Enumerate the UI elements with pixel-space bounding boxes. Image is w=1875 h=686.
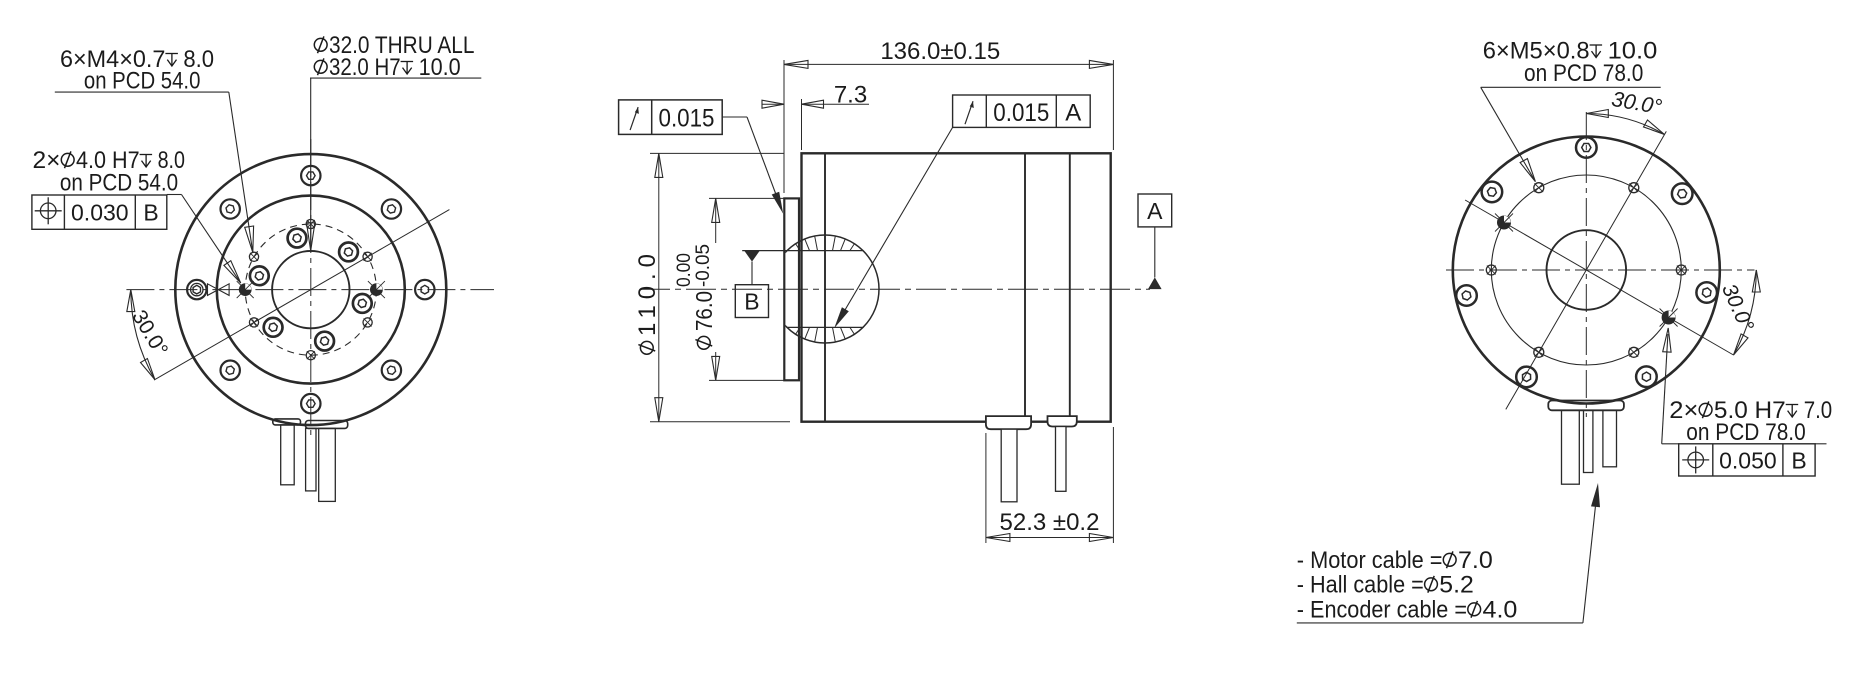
dim 110 ext top bbox=[650, 152, 784, 154]
left view 30deg diagonal centerline bbox=[154, 210, 449, 381]
svg-text:- Hall cable =: - Hall cable = bbox=[1297, 572, 1424, 599]
right view center bore circle bbox=[1547, 230, 1627, 310]
frame2 leader arrow bbox=[834, 307, 849, 328]
note dia32 leader arrow bbox=[307, 223, 315, 251]
body step line right bbox=[1069, 153, 1071, 421]
svg-text:32.0 H7: 32.0 H7 bbox=[329, 54, 401, 81]
svg-text:- Motor cable =: - Motor cable = bbox=[1297, 547, 1443, 574]
right frame leader bbox=[1662, 334, 1668, 444]
svg-text:7.0: 7.0 bbox=[1804, 397, 1833, 424]
hex socket screw at 90 deg (right view) bbox=[1576, 137, 1597, 158]
frame2 leader bbox=[838, 127, 953, 322]
dim 52.3 arrow left bbox=[986, 534, 1010, 542]
dim 110 line bbox=[658, 153, 660, 421]
note 6xM4 leader arrow bbox=[245, 226, 254, 252]
svg-text:B: B bbox=[1791, 447, 1806, 473]
dim 110 arrow bottom bbox=[655, 398, 663, 422]
note 6xM5 underline+leader bbox=[1481, 86, 1661, 88]
dim 52.3 ext left bbox=[985, 433, 987, 543]
motor cable (left view) bbox=[319, 428, 336, 501]
hex socket screw at 299.4 deg (right view) bbox=[1636, 366, 1657, 387]
dim 7.3 right arrow bbox=[802, 103, 870, 105]
dim 136 arrow right bbox=[1089, 60, 1113, 68]
outer mounting screw at 0 deg (left view) bbox=[415, 280, 434, 299]
right arc arrow bottom bbox=[1734, 334, 1749, 355]
datum B box bbox=[735, 285, 768, 318]
left view bolt circle PCD 54 (dashed) bbox=[245, 224, 376, 355]
bowtie datum mark on left centerline bbox=[208, 284, 230, 296]
encoder cable (right view) bbox=[1584, 410, 1593, 472]
30.0deg label right (right view) bbox=[1717, 280, 1758, 334]
dim dia76 text bbox=[674, 244, 717, 349]
top arc arrow right bbox=[1644, 120, 1665, 135]
svg-text:76.0: 76.0 bbox=[691, 291, 717, 331]
dim 7.3 ext right bbox=[801, 99, 803, 150]
30deg angle dimension arc (left view) bbox=[131, 290, 155, 380]
M5 tapped hole at 120 deg on PCD78 bbox=[1534, 183, 1544, 193]
hex socket screw at 38.5 deg (right view) bbox=[1672, 183, 1693, 204]
socket head screw at 105 deg (left view) bbox=[288, 229, 307, 248]
svg-text:on PCD 54.0: on PCD 54.0 bbox=[60, 170, 178, 197]
hall cable (right view) bbox=[1603, 410, 1617, 467]
left frame leader arrow bbox=[224, 261, 241, 283]
M5 tapped hole at 0 deg on PCD78 bbox=[1676, 265, 1686, 275]
M4 tapped hole at 330 deg on PCD54 bbox=[363, 318, 372, 327]
bore bottom wall line bbox=[787, 326, 864, 328]
note dia32 line1 bbox=[314, 36, 327, 53]
M5 tapped hole at 300 deg on PCD78 bbox=[1629, 347, 1639, 357]
hex socket screw at 140.4 deg (right view) bbox=[1482, 182, 1503, 203]
right view outer circle bbox=[1453, 137, 1720, 404]
left view outer flange circle bbox=[175, 154, 446, 425]
datum B leader bbox=[751, 262, 753, 285]
30deg top arc dimension (right view) bbox=[1586, 114, 1664, 135]
cable note underline+leader bbox=[1297, 622, 1583, 624]
right view horizontal centerline bbox=[1446, 269, 1755, 271]
svg-text:2×: 2× bbox=[33, 147, 61, 174]
M5 tapped hole at 60 deg on PCD78 bbox=[1629, 183, 1639, 193]
runout symbol frame1 bbox=[630, 107, 639, 130]
svg-text:52.3 ±0.2: 52.3 ±0.2 bbox=[1000, 509, 1100, 536]
svg-text:- Encoder cable =: - Encoder cable = bbox=[1297, 597, 1467, 624]
M4 tapped hole at 90 deg on PCD54 bbox=[306, 219, 315, 228]
30.0deg label top (right view) bbox=[1610, 87, 1664, 119]
motor cable (right view) bbox=[1562, 410, 1580, 484]
dim 52.3 ext right bbox=[1112, 427, 1114, 543]
middle view centerline bbox=[640, 288, 1150, 290]
dim 52.3 arrow right bbox=[1089, 534, 1113, 542]
cable note leader arrow bbox=[1591, 483, 1600, 507]
socket head screw at 285 deg (left view) bbox=[315, 332, 334, 351]
svg-text:-0.05: -0.05 bbox=[693, 244, 714, 287]
dim 110 ext bottom bbox=[650, 421, 790, 423]
svg-text:A: A bbox=[1065, 100, 1081, 127]
datum A box bbox=[1138, 194, 1172, 227]
right arc arrow top bbox=[1752, 270, 1760, 292]
front pilot spigot bbox=[784, 198, 799, 380]
dim 76 ext bottom bbox=[709, 379, 786, 381]
dim dia110 text bbox=[634, 254, 661, 354]
datum A triangle bbox=[1148, 277, 1162, 289]
datum A leader bbox=[1154, 227, 1156, 278]
right view 150-330 diagonal bbox=[1465, 200, 1733, 355]
dim 7.3 left arrow bbox=[762, 103, 784, 105]
motor body outline bbox=[802, 153, 1111, 421]
svg-text:7.0: 7.0 bbox=[1458, 547, 1493, 574]
svg-text:0.00: 0.00 bbox=[674, 253, 695, 287]
hex socket screw at 240.8 deg (right view) bbox=[1516, 367, 1537, 388]
dowel pin hole at 180 deg on PCD54 (left view) bbox=[237, 281, 254, 298]
cable 2 side view bbox=[1056, 427, 1067, 492]
svg-text:on PCD 78.0: on PCD 78.0 bbox=[1524, 60, 1643, 87]
30.0deg label (left view) bbox=[127, 306, 172, 360]
left view center bore circle bbox=[272, 251, 349, 328]
M4 tapped hole at 30 deg on PCD54 bbox=[363, 252, 372, 261]
frame1 leader arrow bbox=[772, 192, 784, 214]
svg-text:B: B bbox=[744, 289, 759, 315]
svg-text:0.015: 0.015 bbox=[993, 99, 1049, 127]
position symbol (right frame) bbox=[1682, 446, 1709, 473]
outer mounting screw at 225 deg (left view) bbox=[221, 361, 240, 380]
svg-text:B: B bbox=[143, 200, 158, 226]
svg-text:136.0±0.15: 136.0±0.15 bbox=[880, 38, 1000, 65]
right view vertical centerline bbox=[1585, 112, 1587, 417]
svg-text:0.050: 0.050 bbox=[1719, 447, 1777, 473]
svg-text:0.030: 0.030 bbox=[71, 200, 129, 226]
hall cable (left view) bbox=[281, 425, 295, 485]
arc arrow top (left 30deg dim) bbox=[127, 290, 135, 312]
outer mounting screw at 270 deg (left view) bbox=[301, 394, 320, 413]
svg-text:0.015: 0.015 bbox=[659, 105, 715, 133]
right frame top line ext bbox=[1662, 443, 1679, 445]
body bottom cable connector 2 bbox=[1048, 416, 1077, 426]
dowel pin hole at 0 deg on PCD54 (left view) bbox=[368, 281, 385, 298]
dowel pin hole at 150 deg on PCD78 bbox=[1495, 214, 1513, 232]
body bottom cable connector 1 bbox=[986, 416, 1031, 429]
position symbol (left frame) bbox=[35, 197, 62, 224]
runout frame 1 bbox=[619, 100, 723, 134]
svg-text:on PCD 78.0: on PCD 78.0 bbox=[1686, 419, 1805, 446]
dowel pin hole at -30 deg on PCD78 bbox=[1660, 309, 1678, 327]
right view 60-240 diagonal bbox=[1506, 131, 1667, 409]
encoder cable (left view) bbox=[306, 428, 316, 491]
outer mounting screw at 90 deg (left view) bbox=[301, 166, 320, 185]
socket head screw at 345 deg (left view) bbox=[353, 294, 372, 313]
top arc arrow left bbox=[1586, 110, 1608, 118]
left view vertical centerline bbox=[310, 139, 312, 440]
dim 76 arrow top bbox=[712, 198, 720, 222]
M5 tapped hole at 240 deg on PCD78 bbox=[1534, 347, 1544, 357]
arc arrow bottom (left 30deg dim) bbox=[141, 359, 155, 380]
30deg right arc dimension (right view) bbox=[1734, 270, 1757, 355]
left frame leader bbox=[167, 194, 182, 196]
cable 1 side view bbox=[1001, 429, 1017, 502]
cable connector tab 2 (left view) bbox=[305, 421, 347, 429]
right view bolt circle PCD 78 bbox=[1491, 175, 1681, 365]
body step line left bbox=[824, 153, 826, 421]
dim 136 arrow left bbox=[784, 60, 808, 68]
runout frame 2 bbox=[953, 95, 1091, 127]
svg-text:5.2: 5.2 bbox=[1439, 572, 1474, 599]
hex socket screw at 349.4 deg (right view) bbox=[1696, 282, 1717, 303]
dim 110 arrow top bbox=[655, 153, 663, 177]
svg-text:7.3: 7.3 bbox=[834, 82, 867, 109]
svg-text:10.0: 10.0 bbox=[419, 54, 461, 81]
outer mounting screw at 315 deg (left view) bbox=[382, 361, 401, 380]
dim 76 arrow bottom bbox=[712, 356, 720, 380]
dim 76 ext top bbox=[709, 197, 786, 199]
outer mounting screw at 135 deg (left view) bbox=[221, 199, 240, 218]
dim 136 ext line right bbox=[1112, 60, 1114, 150]
socket head screw at 165 deg (left view) bbox=[250, 266, 269, 285]
M4 tapped hole at 210 deg on PCD54 bbox=[249, 318, 258, 327]
note dia32 underline+leader bbox=[310, 77, 481, 79]
note 6xM4 underline+leader bbox=[55, 91, 229, 93]
note dia32 line2 bbox=[314, 58, 327, 75]
dim 136 line bbox=[784, 63, 1113, 65]
position tolerance frame (right view) bbox=[1679, 444, 1815, 476]
dim 136 ext line left bbox=[783, 60, 785, 193]
broken-out section bubble with hatch bbox=[771, 235, 879, 343]
svg-text:A: A bbox=[1147, 198, 1163, 224]
left view inner flange circle bbox=[217, 196, 405, 384]
svg-text:4.0: 4.0 bbox=[1483, 597, 1518, 624]
cable connector tab 1 (left view) bbox=[273, 419, 301, 425]
note 6xM5 leader arrow bbox=[1520, 159, 1535, 182]
datum B triangle bbox=[744, 251, 760, 262]
frame1 leader bbox=[722, 116, 747, 118]
M4 tapped hole at 270 deg on PCD54 bbox=[306, 351, 315, 360]
dim 76 line bbox=[715, 198, 717, 243]
M5 tapped hole at 180 deg on PCD78 bbox=[1486, 265, 1496, 275]
socket head screw at 225 deg (left view) bbox=[264, 318, 283, 337]
position tolerance frame (left view) bbox=[32, 195, 167, 229]
hex socket screw at 192 deg (right view) bbox=[1456, 285, 1477, 306]
outer mounting screw at 180 deg (left view) bbox=[187, 280, 206, 299]
dim 52.3 line bbox=[986, 537, 1114, 539]
right frame leader arrow bbox=[1663, 328, 1671, 352]
cable connector block (right view) bbox=[1548, 401, 1624, 411]
runout symbol frame2 bbox=[965, 101, 974, 124]
outer mounting screw at 45 deg (left view) bbox=[382, 199, 401, 218]
svg-text:on PCD 54.0: on PCD 54.0 bbox=[84, 68, 200, 95]
bore top wall line bbox=[742, 250, 862, 252]
socket head screw at 45 deg (left view) bbox=[339, 243, 358, 262]
body step line mid-right bbox=[1024, 153, 1026, 421]
left view horizontal centerline bbox=[126, 289, 494, 291]
M4 tapped hole at 150 deg on PCD54 bbox=[249, 252, 258, 261]
